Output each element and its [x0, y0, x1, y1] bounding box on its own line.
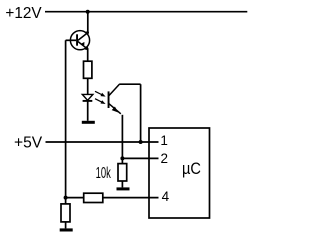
wire LED to ground [87, 101, 89, 121]
pin 1 label [160, 133, 168, 148]
svg-text:µC: µC [182, 160, 201, 178]
10k label [96, 165, 111, 182]
wire collector down to R1 [87, 48, 89, 61]
wire node to R3 [66, 197, 84, 199]
resistor R4 vertical [61, 204, 70, 222]
wire emitter down to pin2 node [121, 115, 123, 159]
wire node to R2 [121, 158, 123, 163]
+12V label [5, 5, 42, 22]
ground (LED) [82, 121, 95, 124]
phototransistor base bar [108, 91, 110, 108]
junction dot on +12V rail [86, 10, 90, 14]
uC label [182, 160, 201, 178]
microcontroller box U1 [149, 128, 210, 218]
wire R1 to LED [87, 78, 89, 94]
base wire horizontal [66, 39, 77, 41]
svg-text:1: 1 [160, 133, 168, 148]
junction dot pin2 node [120, 156, 124, 160]
+12V rail wire [45, 11, 247, 13]
+5V label [14, 135, 43, 152]
wire collector horizontal [119, 83, 140, 85]
+5V rail / pin1 wire [46, 141, 159, 143]
resistor R3 horizontal [84, 193, 103, 202]
base wire vertical down [65, 40, 67, 197]
wire collector down to +5V rail [140, 84, 142, 142]
pin 2 label [160, 151, 168, 166]
phototransistor emitter diagonal with arrow [109, 104, 121, 114]
junction dot base/R3/R4 [64, 196, 68, 200]
svg-text:+5V: +5V [14, 135, 43, 152]
svg-text:4: 4 [162, 189, 170, 204]
phototransistor collector diagonal [109, 84, 120, 96]
junction dot collector/+5V [139, 140, 143, 144]
light arrow 2 [95, 99, 106, 104]
wire R4 to ground [65, 222, 67, 229]
resistor R2 10k [118, 164, 127, 181]
wire emitter to +12V rail [87, 12, 89, 33]
ground (R4) [60, 228, 73, 231]
light arrow 1 [95, 91, 106, 96]
wire node down to R4 [65, 198, 67, 204]
resistor R1 [84, 61, 92, 78]
svg-text:10k: 10k [96, 165, 111, 182]
svg-text:2: 2 [160, 151, 168, 166]
LED D1 (optocoupler emitter diode) [82, 94, 93, 101]
transistor Q1 [70, 31, 89, 50]
pin4 wire [103, 197, 159, 199]
pin2 wire [122, 157, 158, 159]
ground (10k) [117, 187, 130, 190]
pin 4 label [162, 189, 170, 204]
wire R2 to ground [121, 181, 123, 187]
svg-text:+12V: +12V [5, 5, 42, 22]
